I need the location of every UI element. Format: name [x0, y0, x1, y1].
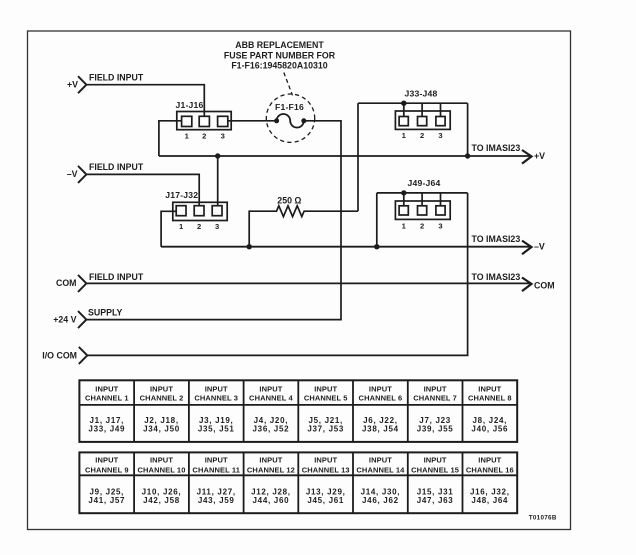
wire J1-J16 pin3 to fuse — [227, 120, 276, 122]
node TO IMASI23 COM — [472, 272, 555, 291]
svg-text:INPUT: INPUT — [150, 456, 173, 465]
svg-text:J44, J60: J44, J60 — [253, 496, 290, 505]
junction dot +V bus to J17-J32 pin3 — [215, 153, 220, 158]
svg-text:INPUT: INPUT — [314, 456, 337, 465]
svg-text:J45, J61: J45, J61 — [307, 496, 344, 505]
svg-text:J47, J63: J47, J63 — [417, 496, 454, 505]
svg-text:J38, J54: J38, J54 — [362, 425, 399, 434]
svg-text:CHANNEL 9: CHANNEL 9 — [85, 465, 129, 474]
wire J1-J16 left to +V bus — [159, 121, 182, 156]
svg-text:FIELD INPUT: FIELD INPUT — [89, 272, 144, 282]
svg-text:COM: COM — [56, 278, 77, 288]
svg-text:F1-F16: F1-F16 — [275, 102, 304, 112]
svg-text:FIELD INPUT: FIELD INPUT — [89, 162, 144, 172]
node TO IMASI23 -V — [472, 234, 545, 254]
svg-text:J15, J31: J15, J31 — [417, 487, 454, 496]
svg-text:CHANNEL 7: CHANNEL 7 — [413, 393, 457, 402]
svg-text:TO IMASI23: TO IMASI23 — [472, 234, 521, 244]
svg-text:CHANNEL 1: CHANNEL 1 — [85, 393, 129, 402]
svg-text:J13, J29,: J13, J29, — [306, 487, 346, 496]
svg-text:J37, J53: J37, J53 — [307, 425, 344, 434]
wire +V bus — [159, 155, 531, 157]
svg-text:3: 3 — [438, 131, 442, 140]
svg-text:+24 V: +24 V — [53, 315, 76, 325]
junction dot resistor to -V bus — [247, 244, 252, 249]
svg-text:INPUT: INPUT — [478, 385, 501, 394]
svg-text:J36, J52: J36, J52 — [253, 425, 290, 434]
svg-text:ABB REPLACEMENT: ABB REPLACEMENT — [235, 40, 324, 50]
svg-text:TO IMASI23: TO IMASI23 — [472, 272, 521, 282]
svg-text:J9, J25,: J9, J25, — [90, 487, 125, 496]
svg-text:CHANNEL 3: CHANNEL 3 — [194, 393, 238, 402]
svg-text:CHANNEL 13: CHANNEL 13 — [302, 465, 350, 474]
svg-text:J49-J64: J49-J64 — [408, 178, 441, 188]
wire -V input to J17-J32 pin2 — [87, 174, 200, 205]
svg-text:CHANNEL 14: CHANNEL 14 — [356, 465, 405, 474]
svg-text:CHANNEL 12: CHANNEL 12 — [247, 465, 295, 474]
svg-text:CHANNEL 10: CHANNEL 10 — [138, 465, 186, 474]
wire -V bus — [161, 246, 530, 248]
svg-text:INPUT: INPUT — [369, 385, 392, 394]
svg-text:J34, J50: J34, J50 — [143, 425, 180, 434]
svg-text:FUSE PART NUMBER FOR: FUSE PART NUMBER FOR — [224, 50, 336, 60]
svg-text:F1-F16:1945820A10310: F1-F16:1945820A10310 — [231, 61, 327, 71]
svg-text:CHANNEL 15: CHANNEL 15 — [411, 465, 459, 474]
svg-text:SUPPLY: SUPPLY — [88, 307, 123, 317]
svg-text:2: 2 — [202, 131, 206, 140]
table input channels 1-8 — [79, 380, 517, 442]
svg-text:CHANNEL 11: CHANNEL 11 — [192, 465, 240, 474]
svg-text:INPUT: INPUT — [424, 456, 447, 465]
connector J33-J48 — [358, 88, 468, 139]
junction dot J33-J48 to +V bus — [465, 153, 470, 158]
node I/O COM — [42, 347, 87, 364]
connector J1-J16 — [176, 100, 232, 140]
wire J49-J64 right down to I/O COM — [87, 193, 467, 356]
svg-text:INPUT: INPUT — [259, 385, 282, 394]
svg-text:+V: +V — [534, 151, 545, 161]
note: ABB replacement fuse text — [224, 40, 336, 70]
svg-text:CHANNEL 2: CHANNEL 2 — [140, 393, 184, 402]
svg-text:J48, J64: J48, J64 — [471, 496, 508, 505]
wire +V input to J1-J16 pin2 — [87, 85, 205, 116]
node +V field input — [67, 72, 144, 93]
node TO IMASI23 +V — [472, 143, 546, 163]
leader line to fuse — [284, 73, 293, 96]
table input channels 9-16 — [79, 452, 517, 513]
svg-text:T01076B: T01076B — [529, 514, 557, 521]
svg-text:CHANNEL 8: CHANNEL 8 — [468, 393, 512, 402]
svg-text:J17-J32: J17-J32 — [165, 190, 198, 200]
svg-text:2: 2 — [197, 222, 201, 231]
svg-text:J14, J30,: J14, J30, — [361, 487, 401, 496]
wire bus to J17-J32 pin3 — [217, 156, 219, 206]
svg-text:3: 3 — [221, 131, 225, 140]
svg-text:J35, J51: J35, J51 — [198, 425, 235, 434]
wire J33-J48 left down to resistor — [357, 103, 359, 211]
svg-text:INPUT: INPUT — [424, 385, 447, 394]
svg-text:J10, J26,: J10, J26, — [142, 487, 182, 496]
svg-text:J1-J16: J1-J16 — [176, 100, 204, 110]
svg-text:INPUT: INPUT — [95, 385, 118, 394]
svg-text:I/O COM: I/O COM — [42, 351, 77, 361]
wire fuse to +24V supply — [87, 121, 342, 320]
svg-text:CHANNEL 6: CHANNEL 6 — [359, 393, 403, 402]
svg-text:+V: +V — [67, 80, 78, 90]
svg-text:CHANNEL 16: CHANNEL 16 — [466, 465, 514, 474]
svg-text:COM: COM — [534, 280, 555, 290]
svg-text:J33-J48: J33-J48 — [405, 88, 438, 98]
node -V field input — [67, 162, 144, 183]
svg-text:3: 3 — [215, 222, 219, 231]
svg-text:INPUT: INPUT — [150, 385, 173, 394]
svg-text:2: 2 — [420, 221, 424, 230]
svg-text:J16, J32,: J16, J32, — [470, 487, 510, 496]
svg-text:INPUT: INPUT — [259, 456, 282, 465]
svg-text:INPUT: INPUT — [95, 456, 118, 465]
svg-text:CHANNEL 4: CHANNEL 4 — [249, 393, 293, 402]
svg-text:FIELD INPUT: FIELD INPUT — [89, 72, 144, 82]
resistor 250 ohm — [249, 195, 358, 246]
svg-text:J33, J49: J33, J49 — [88, 425, 125, 434]
svg-text:2: 2 — [420, 131, 424, 140]
svg-text:INPUT: INPUT — [478, 456, 501, 465]
svg-text:TO IMASI23: TO IMASI23 — [472, 143, 521, 153]
svg-text:INPUT: INPUT — [369, 456, 392, 465]
svg-text:250 Ω: 250 Ω — [277, 195, 301, 205]
svg-text:INPUT: INPUT — [314, 385, 337, 394]
wire J49-J64 left down to -V bus — [376, 193, 378, 247]
svg-text:J43, J59: J43, J59 — [198, 496, 235, 505]
connector J49-J64 — [377, 178, 468, 230]
svg-text:INPUT: INPUT — [205, 385, 228, 394]
svg-text:J41, J57: J41, J57 — [88, 496, 125, 505]
svg-text:J12, J28,: J12, J28, — [251, 487, 291, 496]
svg-text:J42, J58: J42, J58 — [143, 496, 180, 505]
svg-text:INPUT: INPUT — [205, 456, 228, 465]
svg-text:J39, J55: J39, J55 — [417, 425, 454, 434]
node +24V supply — [53, 307, 122, 328]
fuse F1-F16 — [266, 94, 314, 142]
svg-text:–V: –V — [67, 169, 78, 179]
svg-text:3: 3 — [438, 221, 442, 230]
junction dot J49-J64 to -V bus — [374, 244, 379, 249]
svg-text:J40, J56: J40, J56 — [471, 425, 508, 434]
wire COM bus — [87, 282, 531, 284]
svg-text:J11, J27,: J11, J27, — [197, 487, 236, 496]
svg-text:–V: –V — [534, 241, 545, 251]
svg-text:J46, J62: J46, J62 — [362, 496, 399, 505]
connector J17-J32 — [165, 190, 227, 231]
wire J17-J32 left to -V bus — [161, 211, 176, 246]
node COM field input — [56, 272, 144, 292]
wire J33-J48 right down to +V bus — [467, 103, 469, 156]
svg-text:CHANNEL 5: CHANNEL 5 — [304, 393, 348, 402]
